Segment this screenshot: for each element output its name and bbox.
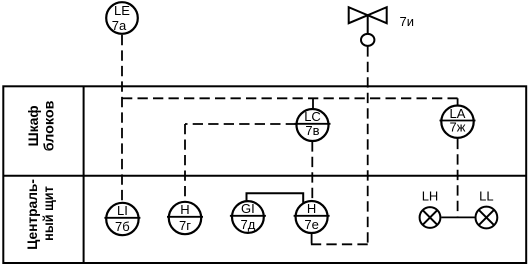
svg-text:LI: LI xyxy=(117,203,128,218)
svg-text:7а: 7а xyxy=(112,18,127,33)
svg-text:LE: LE xyxy=(114,3,130,18)
svg-text:ный щит: ный щит xyxy=(40,186,56,241)
svg-text:H: H xyxy=(307,201,316,216)
svg-text:7в: 7в xyxy=(305,123,319,138)
svg-text:Централь-: Централь- xyxy=(24,179,40,250)
svg-text:GI: GI xyxy=(241,201,255,216)
svg-text:7и: 7и xyxy=(400,14,415,29)
svg-text:7д: 7д xyxy=(240,217,255,232)
svg-text:7г: 7г xyxy=(179,218,191,233)
svg-text:7ж: 7ж xyxy=(450,120,466,135)
svg-text:7е: 7е xyxy=(304,217,318,232)
svg-text:LH: LH xyxy=(422,188,439,203)
svg-text:Шкаф: Шкаф xyxy=(25,105,41,146)
svg-text:блоков: блоков xyxy=(40,100,56,151)
svg-text:H: H xyxy=(180,202,189,217)
svg-text:7б: 7б xyxy=(115,219,130,234)
svg-text:LL: LL xyxy=(479,188,493,203)
